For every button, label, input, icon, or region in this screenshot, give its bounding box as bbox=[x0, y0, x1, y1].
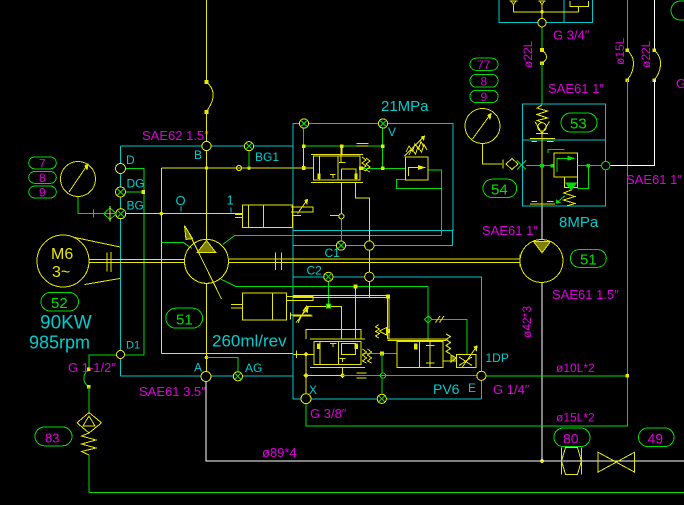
node dot at (206,357.5) bbox=[205, 356, 209, 360]
node diamond at (306,354.3) bbox=[303, 352, 308, 357]
callout 49 bbox=[639, 428, 675, 447]
pump P (variable displacement) bbox=[185, 239, 229, 283]
svg-text:SAE61 1″: SAE61 1″ bbox=[626, 172, 682, 187]
svg-text:BG: BG bbox=[127, 199, 144, 213]
valve U2 spring (right side) bbox=[362, 157, 370, 172]
check valve (circle in V) bbox=[535, 122, 550, 134]
svg-text:SAE61 1″: SAE61 1″ bbox=[482, 223, 538, 238]
wire: green BG1 drop from BG1 port to y=168 line bbox=[248, 151, 250, 168]
svg-text:SAE61 1.5″: SAE61 1.5″ bbox=[552, 287, 619, 302]
hydraulic motor R (51) bbox=[520, 240, 563, 283]
TOP VALVE BLOCK bbox=[499, 0, 592, 27]
wire: green relief pilot loop bbox=[396, 179, 441, 188]
orifice diamond on x=428 green bbox=[424, 316, 431, 323]
motor M6 coupling bars bbox=[107, 252, 111, 272]
node dot at (206,168) bbox=[205, 166, 209, 170]
valve V1 upper frame bbox=[306, 329, 361, 339]
RV1 adjustable spring (diagonal, above) bbox=[406, 142, 424, 153]
wire: yellow x=306 from V1 port down to X port circle bbox=[305, 354, 307, 393]
RV2 spring box below bbox=[565, 177, 578, 188]
callout 8 right bbox=[470, 74, 498, 87]
8MPa BLOCK (53/54) bbox=[522, 104, 605, 206]
valve U2 (21MPa block pilot valve) body bbox=[314, 156, 361, 180]
wire: yellow from valve U2 bottom to C1 circle bbox=[356, 183, 370, 241]
callout 7 bbox=[29, 157, 57, 169]
wire: green ø15L riser x=627.3 top segment bbox=[626, 0, 628, 50]
motor R flow triangle (hatched, pointing down) bbox=[534, 242, 551, 253]
svg-text:54: 54 bbox=[491, 182, 508, 199]
port E bbox=[477, 371, 486, 380]
wire: green x=627.3 main riser down to bottom corner, then left to X port bbox=[306, 80, 628, 426]
PV6 drain circled-X on bottom edge bbox=[377, 394, 386, 403]
svg-text:53: 53 bbox=[570, 116, 587, 133]
svg-text:77: 77 bbox=[477, 58, 491, 72]
wire: green pump lower drain diagonal to y=286.6 bbox=[221, 279, 428, 287]
internal bus bbox=[514, 5, 579, 19]
svg-text:DG: DG bbox=[127, 177, 145, 191]
wire: yellow vertical (341.8,146.2) to valve U2 top bbox=[341, 146, 343, 154]
wire: green x=542 from break to 8MPa block top bbox=[541, 63, 543, 104]
wire: yellow box bottom edge y=353.5 bbox=[161, 353, 293, 355]
callout 77 bbox=[470, 58, 498, 70]
relief valve RV2 body bbox=[554, 153, 578, 177]
filter F (83) diamond bbox=[77, 413, 102, 434]
node dot at (161,213.6) bbox=[160, 212, 164, 216]
port D bbox=[116, 164, 126, 174]
wire: cyan C1 line y=245.6 with stub up to block bottom bbox=[293, 230, 453, 245]
port AG circled-X bbox=[233, 372, 242, 381]
callout 51 right bbox=[570, 250, 606, 268]
callout 9 bbox=[29, 186, 57, 198]
svg-text:8MPa: 8MPa bbox=[559, 214, 599, 231]
svg-text:G: G bbox=[676, 76, 684, 91]
PORT CIRCLES AND CIRCLED-X bbox=[104, 119, 610, 404]
svg-text:49: 49 bbox=[648, 431, 664, 447]
pressure gauge left bbox=[61, 162, 96, 197]
wire: cyan A line from A port to PV6 block edge bbox=[211, 375, 293, 377]
wire: white ø42*3 pipe from motor bottom to bottom rail bbox=[541, 283, 543, 461]
svg-text:BG1: BG1 bbox=[255, 150, 279, 164]
svg-text:C2: C2 bbox=[307, 264, 323, 278]
motor M6 coupling cone bbox=[73, 237, 120, 284]
port C1 circle bbox=[365, 241, 374, 250]
callout 54 bbox=[483, 179, 517, 197]
pump swash arrow diagonal bbox=[189, 232, 222, 299]
callout 8 bbox=[29, 172, 57, 184]
svg-text:9: 9 bbox=[39, 185, 46, 199]
port B bbox=[202, 141, 211, 150]
svg-text:ø15L*2: ø15L*2 bbox=[556, 411, 595, 425]
orifice slashes on y=319.6 branch bbox=[436, 316, 445, 323]
wire: green vertical x=428 down to orifice and valve V2 bbox=[427, 287, 429, 340]
RV2 pilot green top bbox=[548, 150, 565, 154]
flange bars bbox=[530, 139, 555, 142]
callout 9 right bbox=[470, 90, 498, 102]
svg-text:ø10L*2: ø10L*2 bbox=[556, 361, 595, 375]
wire: green pilot bottom y=375.6 from 342.5 to E port bbox=[343, 375, 478, 377]
port A bbox=[201, 372, 211, 382]
wire: yellow vertical from node (303.7,146.2) to y=168 header bbox=[303, 146, 305, 168]
wire: cyan A line y=375.8 from x=120.5 to A port bbox=[121, 375, 202, 377]
wire: yellow box left edge x=161.4 bbox=[160, 168, 162, 354]
svg-text:G 3/4″: G 3/4″ bbox=[553, 28, 590, 43]
valve V2 to solenoid link bbox=[443, 360, 456, 362]
callout 52 bbox=[41, 293, 79, 312]
svg-text:7: 7 bbox=[39, 156, 46, 170]
RV1 internal arrow bbox=[409, 168, 422, 177]
BG throttle diamond bbox=[104, 208, 117, 220]
electric motor M6 bbox=[37, 235, 89, 287]
callout 80 bbox=[554, 428, 590, 447]
svg-text:M6: M6 bbox=[51, 246, 73, 263]
wire: green drop from node to PV6 X-drain circled port bbox=[381, 378, 383, 394]
svg-text:ø89*4: ø89*4 bbox=[262, 445, 297, 460]
node diamond at (306,375.6) bbox=[303, 373, 308, 378]
wire: yellow vertical x=355.5 from drain node down to valve V1 region bbox=[355, 287, 357, 339]
svg-text:9: 9 bbox=[481, 90, 488, 104]
node circle under valve U2 bbox=[339, 214, 344, 219]
wire: yellow control line y=213.6 from BG to cylinder1 rod bbox=[126, 213, 243, 215]
shaft coupling bars near pump right bbox=[275, 253, 281, 271]
svg-text:D1: D1 bbox=[126, 340, 140, 352]
svg-text:X: X bbox=[309, 383, 317, 397]
svg-text:1: 1 bbox=[227, 193, 234, 208]
valve V2 pilot cap (triangle + spring) left of x=388 bbox=[379, 328, 386, 336]
callout top-right corner (cut off) bbox=[671, 1, 684, 20]
svg-text:21MPa: 21MPa bbox=[381, 98, 429, 115]
svg-text:E: E bbox=[468, 381, 476, 395]
drive shaft double line right (pump to motor R) bbox=[229, 259, 520, 262]
port C2 circle bbox=[365, 272, 374, 281]
svg-text:SAE62 1.5″: SAE62 1.5″ bbox=[142, 128, 209, 143]
stroking cylinder 1 (top) bbox=[243, 205, 293, 228]
wire: yellow link C1-C2 port circles x=369.3 bbox=[368, 250, 370, 272]
node squares on y=146.2 header bbox=[302, 144, 306, 148]
orifice double-dash above green header bbox=[357, 144, 369, 147]
wire: yellow pilot double line y=295.3/297.3 bbox=[293, 295, 389, 339]
wire: cyan PV6 bottom edge y=398.8 bbox=[293, 398, 482, 400]
port C2 circled-X bbox=[324, 272, 333, 281]
RV2 drain spring + arrow bbox=[564, 190, 576, 206]
wire: gauge line green from gauge bottom to BG port bbox=[78, 197, 115, 214]
wire: main pump suction vertical (yellow, x=206) top segment bbox=[206, 0, 208, 82]
node dot at (542,461) bbox=[540, 459, 544, 463]
VALVES bbox=[306, 136, 477, 367]
node (328.4,306.6) pilot junction bbox=[327, 304, 331, 308]
svg-text:B: B bbox=[194, 148, 202, 162]
throttle diamond at (512,164) bbox=[506, 159, 518, 170]
break symbol on x=654.4 bbox=[654, 50, 660, 80]
wire: green orifice branch y=319.6 to the right, down to solenoid bbox=[432, 320, 467, 355]
port DG (circled X) bbox=[116, 187, 126, 197]
8MPa block right port circle bbox=[602, 161, 610, 169]
wire: white x=654.4 down then left into 8MPa block port bbox=[610, 80, 654, 166]
svg-text:C1: C1 bbox=[325, 246, 341, 260]
bracket top right bbox=[570, 1, 589, 12]
wire: x=206 from B port down to pump bbox=[206, 151, 208, 241]
wire: yellow x=342.5 valve V1 bottom to node bbox=[342, 368, 344, 376]
svg-text:ø22L: ø22L bbox=[521, 40, 535, 68]
wire: cyan vertical x=120.5 from B header to D1 bbox=[120, 146, 122, 350]
wire: green drain from D port right then down x=143.8 bbox=[126, 169, 144, 356]
break symbol on x=627.3 bbox=[627, 50, 633, 80]
port circle at bottom of top block bbox=[538, 19, 546, 27]
svg-text:G 3/8″: G 3/8″ bbox=[310, 406, 347, 421]
wire: green spring-side link of valve U2 to relief bbox=[361, 167, 406, 169]
callout 53 bbox=[561, 113, 597, 132]
wire: x=206 from break to B port bbox=[206, 112, 208, 142]
wire: green from 21MPa relief right side down to case drain rail bbox=[428, 170, 441, 236]
svg-text:90KW: 90KW bbox=[40, 313, 92, 334]
svg-text:83: 83 bbox=[45, 431, 59, 446]
break symbol on x=542 green bbox=[542, 50, 547, 63]
wire: yellow from valve U2 bottom to node circle, then green to C1-X bbox=[340, 183, 342, 214]
RV2 feedback loop right bbox=[578, 166, 589, 189]
wire: white ø89*4 line from A port down and right along y=461 bbox=[206, 382, 684, 462]
green internal supply line y=165.6 bbox=[526, 165, 554, 167]
block 53 outline bbox=[522, 104, 605, 206]
wire: cyan 21MPa block outline bbox=[293, 124, 453, 399]
node open circle at (239,168) bbox=[236, 165, 241, 170]
wire: cyan C2 / PV6 top edge y=276.8 and right edge x=481.5 bbox=[293, 277, 482, 399]
check valve spring top bbox=[537, 105, 548, 123]
tank symbols Y bbox=[509, 1, 517, 12]
svg-text:ø15L: ø15L bbox=[613, 37, 627, 65]
svg-text:260ml/rev: 260ml/rev bbox=[212, 332, 287, 351]
wire: green bottom tank rail y=492.5 bbox=[89, 492, 684, 494]
svg-text:51: 51 bbox=[580, 252, 597, 269]
node square at (388,296.3) bbox=[386, 295, 390, 299]
21MPa block top circled-X left bbox=[299, 119, 308, 128]
callout 83 bbox=[35, 427, 72, 446]
wire: green case drain pump to relief block: diagonal + y=235.5 bbox=[223, 236, 442, 245]
wire: green vertical from C2-X down to valve1 pilot bbox=[327, 281, 329, 305]
proportional arrow through valve V1 pilot bbox=[298, 307, 306, 323]
wire: green drain y=355.2 from x=143.8 left to x=88.8 bbox=[89, 355, 144, 369]
node dot at (249,168) bbox=[247, 166, 251, 170]
wire: white SAE61 1" pipe from 8MPa block bottom to motor top bbox=[541, 206, 543, 240]
cylinder 2 feedback link + arrow bbox=[287, 297, 313, 301]
wire: green into pump from box edge bbox=[161, 242, 192, 248]
proportional solenoid S1 (PV6, right) bbox=[456, 355, 476, 368]
svg-text:8: 8 bbox=[39, 171, 46, 185]
svg-text:AG: AG bbox=[245, 361, 262, 375]
svg-text:80: 80 bbox=[563, 431, 579, 447]
svg-text:O: O bbox=[176, 193, 186, 208]
port BG1 (circled X) bbox=[244, 142, 253, 151]
valve V2 spring (right, vertical) bbox=[446, 334, 451, 354]
wire: green E port line y=375.8 (ø10L*2) bbox=[486, 375, 627, 377]
tick bar before throttle diamond bbox=[502, 160, 504, 169]
PV6 BLOCK INTERNAL WIRES bbox=[293, 285, 477, 395]
wire: yellow pilot header y=168 from box corner to valve U2 left bbox=[161, 167, 313, 169]
svg-text:51: 51 bbox=[176, 312, 193, 329]
wire: green link valve V1 to valve V2 y=353.4 bbox=[363, 352, 398, 354]
svg-text:ø42*3: ø42*3 bbox=[520, 306, 534, 338]
svg-text:SAE61 1″: SAE61 1″ bbox=[548, 81, 604, 96]
wire: yellow from C2 circle down to pilot double line bbox=[368, 282, 370, 298]
wire: V1 left port line y=354.3 from block edge bbox=[294, 353, 314, 355]
svg-text:8: 8 bbox=[481, 75, 488, 89]
wire: green x=382 node down to bottom pilot node bbox=[381, 353, 383, 373]
RV2 internal arrow (green) bbox=[557, 158, 570, 172]
block 53 mid divider bbox=[522, 139, 605, 141]
svg-text:3~: 3~ bbox=[52, 264, 70, 281]
valve V2 (PV6 right valve) plates and body bbox=[387, 339, 446, 340]
node square at (355.5,286.6) on green drain bbox=[354, 285, 358, 289]
valve V1 (PV6 left valve) plates and body bbox=[310, 339, 365, 367]
pump flow triangle (hatched) bbox=[197, 241, 216, 253]
svg-text:52: 52 bbox=[51, 295, 68, 312]
svg-text:D: D bbox=[126, 153, 135, 167]
rubber joint (80): hexagon with side bars bbox=[561, 448, 581, 475]
node diamond at (342.5,375.6) bbox=[340, 373, 345, 378]
wire: green from break to filter bbox=[88, 387, 90, 413]
yellow vertical through block bbox=[541, 134, 543, 206]
wire: DG stub green bbox=[126, 191, 143, 193]
svg-text:985rpm: 985rpm bbox=[29, 333, 90, 353]
svg-text:PV6: PV6 bbox=[433, 381, 460, 397]
wire: green top header in 21MPa block y=146.2 bbox=[304, 145, 383, 147]
svg-text:A: A bbox=[194, 361, 202, 375]
RV2 right link to port bbox=[578, 165, 602, 167]
wire: green gauge drop from right gauge to 8MPa block bbox=[483, 144, 503, 165]
stroking cylinder 2 (bottom) bbox=[243, 293, 287, 320]
21MPa block top circled-X V bbox=[378, 119, 387, 128]
BOTTOM RIGHT VALVES bbox=[561, 448, 634, 475]
RIGHT SIDE WIRES bbox=[306, 0, 661, 461]
callout 51 left bbox=[166, 308, 203, 328]
wire: green A-G link from pump line to AG port bbox=[207, 358, 239, 373]
wire: green from top valve block circle down to break bbox=[541, 27, 543, 50]
cylinder 1 feedback link + arrow bbox=[291, 207, 313, 212]
valve V1 spring right bbox=[363, 349, 372, 363]
svg-text:ø22L: ø22L bbox=[639, 40, 653, 68]
wire: cyan vertical x=120.5 below D1 to A line bbox=[120, 359, 122, 376]
port C1 circled-X bbox=[336, 241, 345, 250]
svg-text:G 1/4″: G 1/4″ bbox=[493, 382, 530, 397]
wire: cyan B header y=146.2 from corner x=120.5 to block edge bbox=[121, 145, 293, 147]
drive shaft double line left bbox=[89, 259, 184, 262]
orifice double-dash on bottom pilot line bbox=[356, 373, 366, 378]
butterfly valve (49): bowtie bbox=[598, 452, 635, 472]
wire: yellow pilot bottom y=375.6 from x=306 to x=342.5 bbox=[306, 375, 343, 377]
small lever line under arrow bbox=[293, 315, 312, 317]
relief valve RV1 (21MPa) body bbox=[406, 157, 428, 180]
pressure gauge right (77/8/9) bbox=[465, 109, 500, 144]
port BG (circled X) bbox=[116, 209, 126, 219]
node circle at (383,375.6) bbox=[380, 373, 385, 378]
svg-text:V: V bbox=[388, 125, 396, 139]
svg-text:1DP: 1DP bbox=[486, 351, 509, 365]
wire: green verticals from circled-X ports on block top bbox=[304, 128, 383, 168]
wire: pump outlet down from pump to yellow box bottom, then to A bbox=[206, 283, 208, 372]
wire: white ø22L riser x=654.4 top segment bbox=[653, 0, 655, 50]
node square at (382,353.4) bbox=[380, 352, 384, 356]
wire: break symbol on green drain x=88.8 bbox=[84, 369, 89, 387]
port D1 bbox=[117, 351, 125, 359]
top block outline (cut by top edge) bbox=[499, 0, 592, 23]
svg-text:SAE61 3.5″: SAE61 3.5″ bbox=[139, 384, 206, 399]
green X before 8MPa block bbox=[517, 161, 526, 170]
port X bbox=[301, 394, 311, 404]
wire: break symbol on x=206 line bbox=[207, 82, 214, 112]
svg-text:G 1-1/2″: G 1-1/2″ bbox=[68, 360, 116, 375]
tick cross on gauge line bbox=[93, 210, 95, 218]
node square at (388,331) bbox=[386, 329, 390, 333]
filter spring below bbox=[82, 433, 97, 455]
wire: valve V1 pilot bar y=306.6 with node and frame drop bbox=[306, 307, 341, 339]
wire: green from filter spring to bottom rail bbox=[88, 455, 90, 493]
